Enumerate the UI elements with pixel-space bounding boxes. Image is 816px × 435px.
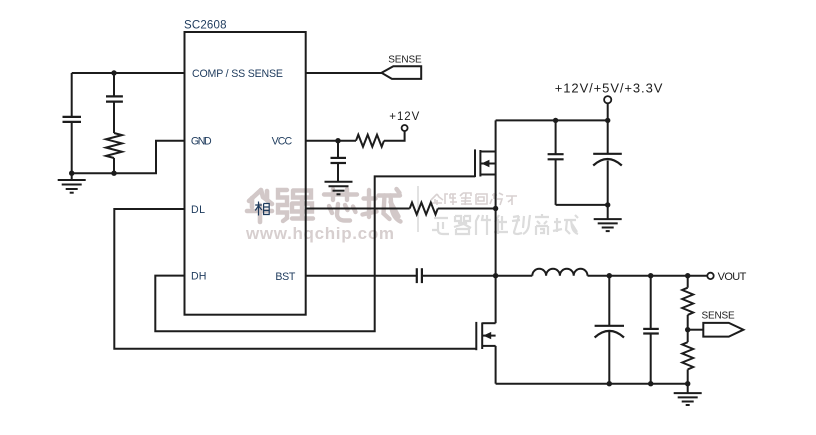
wire COMP to SENSE flag <box>306 72 382 74</box>
svg-text:+12V: +12V <box>389 111 419 123</box>
net flag SENSE (bottom) <box>703 323 743 337</box>
watermark big char 城 <box>363 189 401 222</box>
wire DH net (around to high-side gate) <box>155 176 475 331</box>
svg-text:GND: GND <box>191 136 212 148</box>
node input rail A <box>553 118 558 123</box>
node rail c8 <box>648 381 653 386</box>
node phase tap <box>493 206 498 211</box>
inductor L1 <box>532 269 587 276</box>
node input gnd <box>605 202 610 207</box>
ground symbol G4 <box>674 384 702 405</box>
capacitor C2 (comp series) <box>106 73 123 133</box>
node VCC tap <box>335 138 340 143</box>
svg-text:SC2608: SC2608 <box>184 20 227 32</box>
capacitor C6 (input, polarized) <box>593 120 622 204</box>
transistor Q2 (low-side MOSFET) <box>476 276 495 384</box>
resistor R3 (phase) <box>410 203 438 215</box>
transistor Q1 (high-side MOSFET) <box>475 120 496 275</box>
wire divider tap to SENSE flag <box>688 329 704 331</box>
watermark tagline row1 华强集团旗下 <box>431 193 517 205</box>
svg-text:VCC: VCC <box>272 136 293 148</box>
wire input cap gnd rail <box>556 204 608 206</box>
terminal +12V/+5V/+3.3V <box>604 96 611 120</box>
wire VCC row <box>306 140 356 142</box>
wire COMP row left <box>72 72 185 74</box>
wire switch node to inductor <box>496 275 533 277</box>
watermark divider line <box>417 186 419 232</box>
ground symbol G2 <box>325 182 353 195</box>
resistor R4 (divider top) <box>682 276 693 330</box>
capacitor C4 (bootstrap) <box>417 268 422 283</box>
capacitor C1 (comp, left branch) <box>63 73 82 173</box>
svg-text:DL: DL <box>191 204 205 216</box>
wire phase pin to resistor <box>306 208 410 210</box>
node comp tap <box>111 70 116 75</box>
watermark big char 强 <box>278 190 313 221</box>
ground symbol G3 <box>594 205 622 231</box>
wire resistor to +12V terminal <box>384 131 405 141</box>
svg-text:COMP / SS SENSE: COMP / SS SENSE <box>192 68 283 80</box>
svg-text:www.hqchip.com: www.hqchip.com <box>245 224 394 243</box>
svg-text:SENSE: SENSE <box>388 55 422 66</box>
node vout r4 <box>685 273 690 278</box>
wire resistor to switch node <box>438 208 496 210</box>
capacitor C7 (output, polarized) <box>595 276 624 384</box>
node gnd rail mid <box>111 171 116 176</box>
capacitor C8 (output, ceramic) <box>643 276 659 384</box>
terminal VOUT <box>707 273 713 279</box>
node rail gnd <box>685 381 690 386</box>
net flag SENSE (top) <box>382 66 422 79</box>
wire bottom-left gnd rail to GND pin <box>72 141 185 174</box>
wire bottom output rail <box>496 383 688 385</box>
wire DL net (around left and bottom to low-side gate) <box>114 209 476 349</box>
svg-text:SENSE: SENSE <box>702 310 736 321</box>
svg-text:BST: BST <box>275 271 296 283</box>
wire BST row <box>306 275 417 277</box>
ground symbol G1 <box>58 173 86 193</box>
node input rail B <box>605 118 610 123</box>
capacitor C5 (input, ceramic) <box>548 120 564 204</box>
IC U1 SC2608 body <box>185 32 306 315</box>
wire comp branch to rail <box>113 158 115 173</box>
wire BST cap to switch node <box>422 275 496 277</box>
node vout c7 <box>607 273 612 278</box>
resistor R1 (comp series) <box>106 133 122 158</box>
terminal +12V <box>402 125 408 131</box>
node gnd rail left <box>69 171 74 176</box>
watermark big char 芯 <box>324 189 357 221</box>
wire top rail <box>496 119 608 121</box>
node switch <box>493 273 498 278</box>
resistor R2 (VCC feed) <box>356 135 384 147</box>
capacitor C3 (VCC decoupling) <box>331 141 347 182</box>
watermark tagline row2 元器件在线商城 <box>432 214 578 235</box>
svg-text:+12V/+5V/+3.3V: +12V/+5V/+3.3V <box>555 81 663 96</box>
node rail c7 <box>607 381 612 386</box>
resistor R5 (divider bottom) <box>682 330 693 384</box>
watermark big char 华 <box>247 190 272 222</box>
pin label 相 (phase) <box>255 202 269 216</box>
node divider tap <box>685 327 690 332</box>
node vout c8 <box>648 273 653 278</box>
svg-text:DH: DH <box>191 271 206 283</box>
wire VOUT row <box>588 275 708 277</box>
svg-text:VOUT: VOUT <box>718 271 747 283</box>
